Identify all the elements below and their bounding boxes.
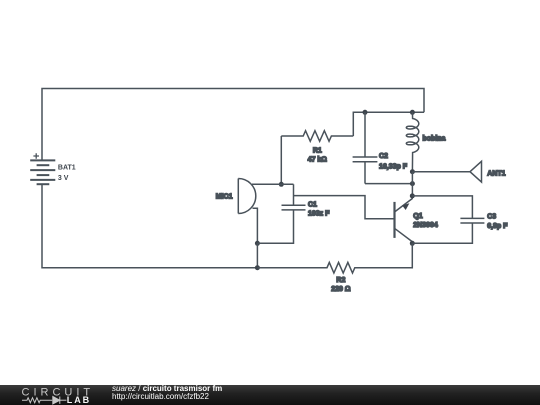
wire R1 left lead down to mic node: [280, 136, 282, 184]
wire mic node down to ground rail: [256, 243, 258, 267]
svg-text:C2: C2: [379, 153, 388, 160]
wire bobina node down to transistor emitter node: [411, 172, 413, 196]
svg-text:ANT1: ANT1: [487, 171, 505, 178]
svg-text:2N3904: 2N3904: [413, 222, 438, 229]
svg-text:bobina: bobina: [423, 136, 446, 143]
svg-text:LAB: LAB: [67, 395, 91, 405]
svg-text:C3: C3: [487, 214, 496, 221]
antenna ANT1: [470, 161, 506, 182]
node junction R1/mic: [279, 182, 284, 187]
svg-text:16,33p F: 16,33p F: [379, 164, 408, 171]
wire C2 bottom to bobina bottom node: [365, 183, 412, 185]
node junction bobina top: [410, 110, 415, 115]
capacitor C3: [412, 196, 508, 243]
resistor R1: [281, 131, 353, 164]
wire mic bottom loop to C1 bottom: [257, 210, 293, 243]
battery BAT1: [30, 153, 76, 184]
node junction bobina bottom / antenna: [410, 169, 415, 174]
svg-text:Q1: Q1: [413, 213, 422, 220]
transistor Q1: [395, 196, 438, 243]
wire antenna feed: [412, 171, 470, 173]
wire top rail from battery + up and across to right corner: [42, 89, 424, 161]
svg-text:MIC1: MIC1: [216, 193, 233, 200]
node junction C2 top: [363, 110, 368, 115]
wire segment y=112 joining R1, C2 top and bobina top: [353, 112, 424, 136]
svg-text:220 Ω: 220 Ω: [331, 286, 351, 293]
svg-text:R2: R2: [336, 277, 345, 284]
node junction collector: [410, 241, 415, 246]
svg-text:103z F: 103z F: [308, 211, 330, 218]
capacitor C2: [353, 112, 408, 183]
svg-text:6,8p F: 6,8p F: [487, 223, 508, 230]
CircuitLab logo: [0, 385, 110, 405]
microphone MIC1: [216, 179, 256, 214]
node junction C2 bottom: [410, 181, 415, 186]
svg-text:R1: R1: [313, 148, 322, 155]
svg-text:3 V: 3 V: [58, 175, 69, 182]
wire mic bottom terminal down: [253, 208, 258, 243]
svg-text:C1: C1: [308, 202, 317, 209]
svg-text:47 kΩ: 47 kΩ: [308, 157, 328, 164]
node junction mic bottom: [255, 241, 260, 246]
node junction emitter: [410, 193, 415, 198]
svg-text:BAT1: BAT1: [58, 165, 76, 172]
inductor bobina: [406, 112, 445, 172]
node junction bottom rail: [255, 265, 260, 270]
capacitor C1: [282, 184, 331, 217]
wire mic top terminal to C1 top: [252, 183, 294, 185]
resistor R2: [257, 243, 412, 293]
footer title text: [112, 385, 222, 400]
wire battery - down to bottom rail: [42, 184, 257, 268]
wire C1 top node to transistor base: [294, 196, 395, 219]
